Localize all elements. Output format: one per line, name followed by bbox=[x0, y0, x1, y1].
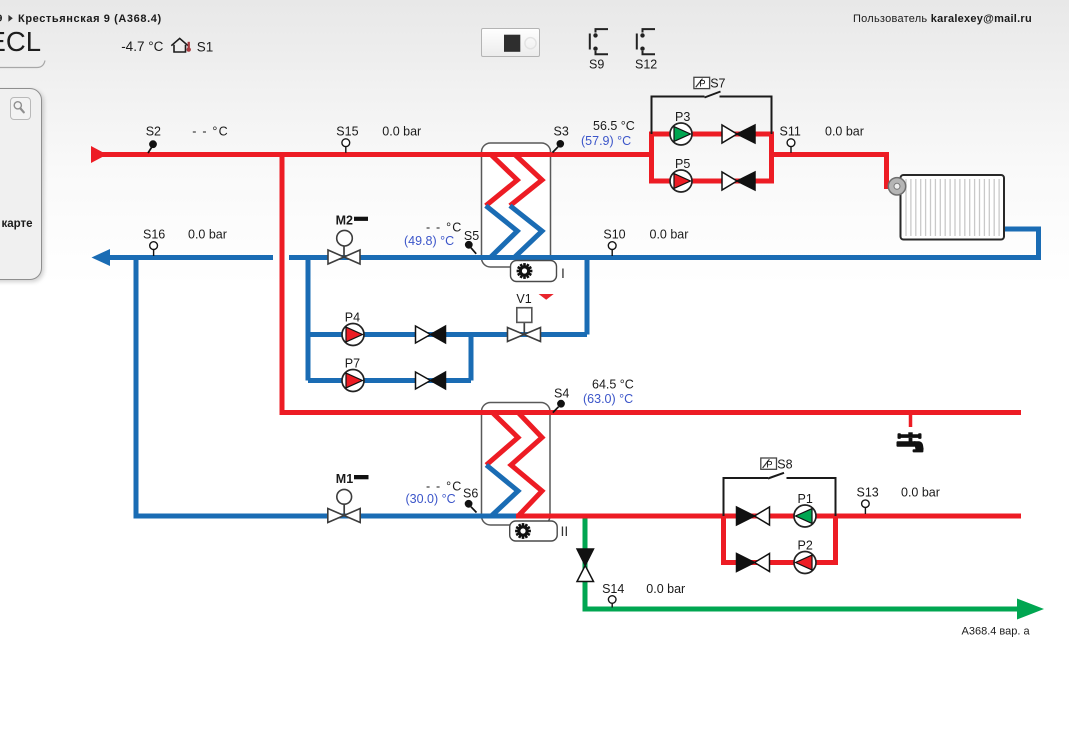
svg-text:S2: S2 bbox=[146, 124, 161, 138]
svg-text:(63.0) °C: (63.0) °C bbox=[583, 392, 633, 406]
svg-text:S4: S4 bbox=[554, 387, 569, 401]
svg-text:56.5 °C: 56.5 °C bbox=[593, 119, 635, 133]
svg-text:0.0 bar: 0.0 bar bbox=[382, 124, 421, 138]
svg-text:M1: M1 bbox=[336, 472, 353, 486]
svg-text:S12: S12 bbox=[635, 57, 657, 71]
svg-text:S9: S9 bbox=[589, 57, 604, 71]
svg-text:I: I bbox=[561, 265, 565, 281]
svg-text:S16: S16 bbox=[143, 228, 165, 242]
svg-text:Пользователь karalexey@mail.ru: Пользователь karalexey@mail.ru bbox=[853, 13, 1032, 25]
svg-text:0.0 bar: 0.0 bar bbox=[646, 582, 685, 596]
svg-text:(57.9) °C: (57.9) °C bbox=[581, 134, 631, 148]
svg-text:S6: S6 bbox=[463, 487, 478, 501]
svg-text:V1: V1 bbox=[516, 292, 531, 306]
svg-text:- - °C: - - °C bbox=[192, 124, 229, 138]
svg-text:0.0 bar: 0.0 bar bbox=[825, 124, 864, 138]
svg-text:P2: P2 bbox=[798, 539, 813, 553]
svg-text:A368.4 вар. а: A368.4 вар. а bbox=[962, 626, 1031, 638]
svg-text:P1: P1 bbox=[798, 492, 813, 506]
svg-text:0.0 bar: 0.0 bar bbox=[901, 486, 940, 500]
svg-text:(49.8) °C: (49.8) °C bbox=[404, 234, 454, 248]
svg-text:S11: S11 bbox=[780, 124, 801, 138]
svg-text:S13: S13 bbox=[857, 486, 879, 500]
svg-text:P: P bbox=[766, 459, 772, 470]
svg-text:P: P bbox=[699, 79, 705, 90]
svg-text:- - °C: - - °C bbox=[426, 221, 463, 235]
svg-text:Крестьянская 9 (А368.4): Крестьянская 9 (А368.4) bbox=[18, 13, 162, 25]
svg-text:S8: S8 bbox=[777, 457, 792, 471]
svg-text:0.0 bar: 0.0 bar bbox=[650, 228, 689, 242]
svg-text:M2: M2 bbox=[336, 213, 353, 227]
svg-text:P7: P7 bbox=[345, 357, 360, 371]
svg-text:S1: S1 bbox=[197, 39, 214, 54]
svg-text:P4: P4 bbox=[345, 311, 360, 325]
svg-text:S15: S15 bbox=[336, 124, 358, 138]
svg-text:ECL: ECL bbox=[0, 26, 41, 57]
svg-text:0.0 bar: 0.0 bar bbox=[188, 228, 227, 242]
svg-text:64.5 °C: 64.5 °C bbox=[592, 377, 634, 391]
svg-text:P3: P3 bbox=[675, 110, 690, 124]
svg-text:карте: карте bbox=[2, 218, 33, 230]
svg-text:P5: P5 bbox=[675, 157, 690, 171]
svg-text:(30.0) °C: (30.0) °C bbox=[406, 492, 456, 506]
svg-text:-4.7 °C: -4.7 °C bbox=[121, 39, 163, 54]
svg-text:S14: S14 bbox=[602, 582, 624, 596]
svg-text:S3: S3 bbox=[554, 124, 569, 138]
svg-text:S5: S5 bbox=[464, 229, 479, 243]
svg-text:II: II bbox=[561, 523, 569, 539]
svg-text:9: 9 bbox=[0, 13, 3, 25]
svg-text:S10: S10 bbox=[603, 228, 625, 242]
svg-text:S7: S7 bbox=[710, 77, 725, 91]
